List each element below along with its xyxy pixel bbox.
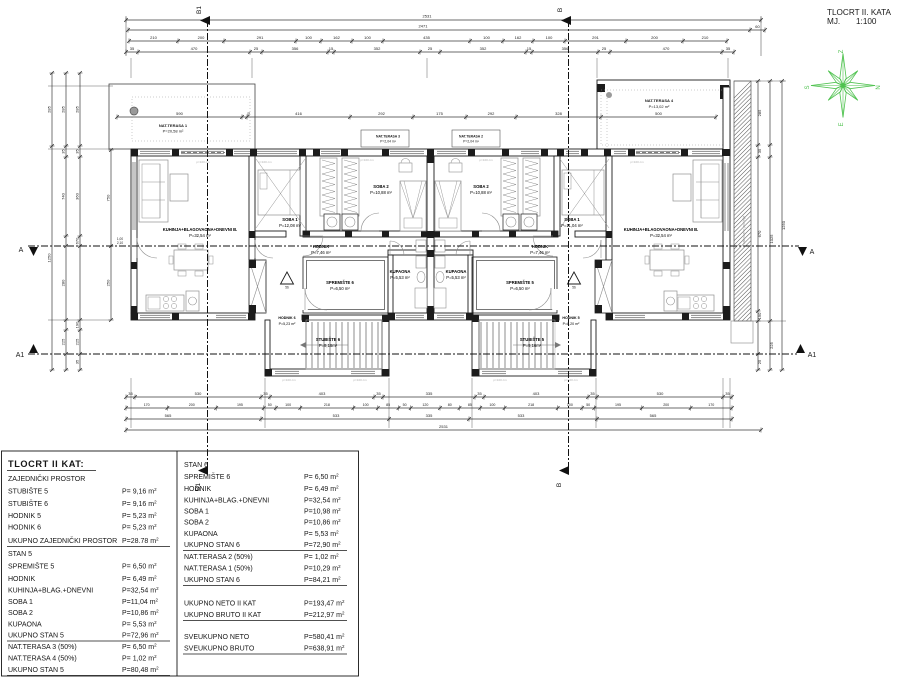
- svg-text:100: 100: [363, 403, 369, 407]
- svg-text:170: 170: [144, 403, 150, 407]
- svg-text:60: 60: [755, 24, 760, 29]
- svg-text:190: 190: [74, 321, 79, 328]
- svg-text:P=580,41 m2: P=580,41 m2: [304, 633, 345, 642]
- svg-text:p=100 cm: p=100 cm: [564, 378, 578, 382]
- svg-text:15: 15: [329, 46, 334, 51]
- svg-text:SVEUKUPNO NETO: SVEUKUPNO NETO: [184, 634, 250, 641]
- svg-text:NAT.TERASA 4 (50%): NAT.TERASA 4 (50%): [8, 656, 77, 663]
- svg-text:P=10,86 m2: P=10,86 m2: [122, 609, 159, 618]
- svg-text:P=193,47 m2: P=193,47 m2: [304, 599, 345, 608]
- svg-text:218: 218: [528, 403, 534, 407]
- svg-text:P=32,54 m2: P=32,54 m2: [122, 586, 159, 595]
- svg-text:ZAJEDNIČKI PROSTOR: ZAJEDNIČKI PROSTOR: [8, 474, 85, 483]
- svg-text:STAN 5: STAN 5: [8, 551, 32, 558]
- svg-text:P= 6,49 m2: P= 6,49 m2: [122, 575, 157, 584]
- svg-text:195: 195: [615, 403, 621, 407]
- svg-text:UKUPNO NETO II KAT: UKUPNO NETO II KAT: [184, 601, 257, 608]
- svg-text:UKUPNO ZAJEDNIČKI PROSTOR: UKUPNO ZAJEDNIČKI PROSTOR: [8, 536, 117, 545]
- svg-text:p=100 cm: p=100 cm: [353, 378, 367, 382]
- svg-text:35: 35: [757, 148, 762, 153]
- svg-text:740: 740: [60, 192, 65, 199]
- svg-text:P=13,02 m²: P=13,02 m²: [649, 104, 670, 109]
- svg-text:P=9,16m²: P=9,16m²: [319, 343, 338, 348]
- svg-text:TLOCRT II. KATA: TLOCRT II. KATA: [827, 8, 892, 17]
- svg-text:335: 335: [426, 413, 433, 418]
- svg-text:120: 120: [422, 403, 428, 407]
- svg-text:SOBA 2: SOBA 2: [184, 520, 209, 527]
- svg-text:56: 56: [285, 286, 289, 290]
- svg-text:SOBA 2: SOBA 2: [373, 184, 389, 189]
- svg-text:TLOCRT II KAT:: TLOCRT II KAT:: [8, 459, 84, 469]
- svg-text:200: 200: [189, 403, 195, 407]
- svg-text:50: 50: [268, 403, 272, 407]
- svg-text:25: 25: [757, 359, 762, 364]
- svg-text:P=10,98 m2: P=10,98 m2: [304, 507, 341, 516]
- svg-text:50: 50: [403, 403, 407, 407]
- svg-text:P=12,08 m²: P=12,08 m²: [279, 223, 301, 228]
- svg-text:100: 100: [364, 35, 371, 40]
- svg-text:P= 5,23 m2: P= 5,23 m2: [122, 523, 157, 532]
- svg-text:P= 6,49 m2: P= 6,49 m2: [304, 485, 339, 494]
- svg-text:15: 15: [527, 46, 532, 51]
- svg-text:162: 162: [333, 35, 340, 40]
- svg-text:A1: A1: [16, 352, 25, 359]
- svg-text:P=28.78 m2: P=28.78 m2: [122, 537, 159, 546]
- svg-text:P=6,50 m²: P=6,50 m²: [510, 286, 530, 291]
- svg-text:285: 285: [60, 105, 65, 112]
- svg-text:565: 565: [650, 413, 657, 418]
- svg-text:530: 530: [657, 391, 664, 396]
- svg-text:20: 20: [247, 112, 251, 116]
- svg-text:KUHINJA+BLAGOVAONA+DNEVNI B.: KUHINJA+BLAGOVAONA+DNEVNI B.: [163, 227, 238, 232]
- svg-text:S: S: [805, 85, 811, 89]
- svg-text:P= 1,02 m2: P= 1,02 m2: [122, 654, 157, 663]
- svg-text:UKUPNO STAN 6: UKUPNO STAN 6: [184, 577, 240, 584]
- svg-text:KUPAONA: KUPAONA: [8, 622, 42, 629]
- svg-text:P=11,04 m2: P=11,04 m2: [122, 598, 159, 607]
- svg-text:200: 200: [198, 35, 205, 40]
- svg-text:25: 25: [428, 46, 433, 51]
- svg-text:P=10,88 m²: P=10,88 m²: [470, 190, 492, 195]
- svg-text:SOBA 2: SOBA 2: [473, 184, 489, 189]
- svg-text:218: 218: [324, 403, 330, 407]
- svg-text:35: 35: [590, 391, 595, 396]
- svg-text:P=84,21 m2: P=84,21 m2: [304, 576, 341, 585]
- svg-text:100: 100: [567, 403, 573, 407]
- svg-text:p=100 cm: p=100 cm: [479, 158, 493, 162]
- svg-text:100: 100: [546, 35, 553, 40]
- svg-text:56: 56: [572, 286, 576, 290]
- svg-text:UKUPNO STAN 6: UKUPNO STAN 6: [184, 542, 240, 549]
- svg-text:328: 328: [555, 111, 562, 116]
- svg-text:NAT.TERASA 1 (50%): NAT.TERASA 1 (50%): [184, 566, 253, 573]
- svg-text:291: 291: [592, 35, 599, 40]
- svg-text:UKUPNO BRUTO II KAT: UKUPNO BRUTO II KAT: [184, 612, 262, 619]
- svg-text:225: 225: [769, 341, 774, 348]
- svg-text:35: 35: [725, 391, 730, 396]
- svg-text:UKUPNO STAN 5: UKUPNO STAN 5: [8, 633, 64, 640]
- svg-text:SPREMIŠTE 5: SPREMIŠTE 5: [8, 562, 54, 571]
- svg-text:KUHINJA+BLAGOVAONA+DNEVNI B.: KUHINJA+BLAGOVAONA+DNEVNI B.: [624, 227, 699, 232]
- svg-text:NAT.TERASA 2: NAT.TERASA 2: [459, 135, 483, 139]
- svg-text:416: 416: [295, 111, 302, 116]
- svg-text:35: 35: [60, 149, 65, 154]
- svg-text:P= 9,16 m2: P= 9,16 m2: [122, 500, 157, 509]
- svg-text:200: 200: [651, 35, 658, 40]
- svg-text:590: 590: [176, 111, 183, 116]
- svg-text:P=5,53 m²: P=5,53 m²: [390, 275, 410, 280]
- svg-text:35: 35: [477, 391, 482, 396]
- svg-text:P= 9,16 m2: P= 9,16 m2: [122, 487, 157, 496]
- svg-text:KUPAONA: KUPAONA: [184, 531, 218, 538]
- svg-text:670: 670: [74, 237, 79, 244]
- svg-text:210: 210: [150, 35, 157, 40]
- svg-text:P=32,54 m2: P=32,54 m2: [304, 496, 341, 505]
- svg-text:P=32,54 m²: P=32,54 m²: [189, 233, 211, 238]
- svg-text:P=5,23 m²: P=5,23 m²: [279, 322, 296, 326]
- svg-text:291: 291: [257, 35, 264, 40]
- svg-text:360: 360: [74, 192, 79, 199]
- svg-text:195: 195: [237, 403, 243, 407]
- svg-text:356: 356: [292, 46, 299, 51]
- svg-text:STUBIŠTE 6: STUBIŠTE 6: [8, 499, 48, 508]
- svg-text:750: 750: [105, 194, 110, 201]
- svg-text:162: 162: [515, 35, 522, 40]
- svg-text:2471: 2471: [419, 24, 429, 29]
- svg-text:356: 356: [562, 46, 569, 51]
- svg-text:HODNIK: HODNIK: [8, 576, 36, 583]
- svg-text:210: 210: [702, 35, 709, 40]
- svg-text:500: 500: [655, 111, 662, 116]
- svg-text:STUBIŠTE 5: STUBIŠTE 5: [520, 337, 545, 342]
- svg-text:292: 292: [378, 111, 385, 116]
- svg-text:35: 35: [74, 359, 79, 364]
- svg-text:35: 35: [726, 46, 731, 51]
- svg-text:A: A: [19, 247, 24, 254]
- svg-text:P=7,46 m²: P=7,46 m²: [311, 250, 331, 255]
- svg-text:250: 250: [105, 279, 110, 286]
- svg-text:P=8,20 m²: P=8,20 m²: [563, 322, 580, 326]
- svg-text:UKUPNO STAN 5: UKUPNO STAN 5: [8, 667, 64, 674]
- svg-text:A: A: [810, 249, 815, 256]
- svg-text:565: 565: [165, 413, 172, 418]
- svg-text:P= 5,53 m2: P= 5,53 m2: [122, 620, 157, 629]
- svg-text:MJ.: MJ.: [827, 17, 840, 26]
- svg-text:285: 285: [46, 105, 51, 112]
- svg-text:natkriveno pročelje: natkriveno pročelje: [742, 216, 746, 245]
- svg-text:KUPAONA: KUPAONA: [446, 269, 467, 274]
- svg-text:25: 25: [254, 46, 259, 51]
- svg-text:P=10,29 m2: P=10,29 m2: [304, 564, 341, 573]
- svg-text:NAT.TERASA 2 (50%): NAT.TERASA 2 (50%): [184, 554, 253, 561]
- svg-text:SPREMIŠTE 6: SPREMIŠTE 6: [184, 472, 230, 481]
- svg-text:P=80,48 m2: P=80,48 m2: [122, 666, 159, 675]
- svg-text:SVEUKUPNO BRUTO: SVEUKUPNO BRUTO: [184, 646, 255, 653]
- svg-text:Z: Z: [839, 49, 845, 53]
- svg-text:NAT.TERASA 4: NAT.TERASA 4: [645, 98, 674, 103]
- svg-text:p=100 cm: p=100 cm: [282, 378, 296, 382]
- svg-text:P=2,04 m²: P=2,04 m²: [463, 140, 480, 144]
- svg-text:352: 352: [374, 46, 381, 51]
- svg-text:P=6,50 m²: P=6,50 m²: [330, 286, 350, 291]
- svg-text:285: 285: [757, 109, 762, 116]
- svg-text:85: 85: [468, 403, 472, 407]
- svg-text:E: E: [839, 122, 845, 126]
- svg-text:P= 6,50 m2: P= 6,50 m2: [304, 473, 339, 482]
- svg-text:470: 470: [663, 46, 670, 51]
- svg-text:NAT.TERASA 1: NAT.TERASA 1: [159, 123, 188, 128]
- svg-text:SOBA 1: SOBA 1: [564, 217, 580, 222]
- svg-text:P=11,04 m²: P=11,04 m²: [561, 223, 583, 228]
- svg-text:1250: 1250: [781, 220, 786, 230]
- svg-text:670: 670: [757, 230, 762, 237]
- svg-text:SPREMIŠTE 6: SPREMIŠTE 6: [326, 280, 354, 285]
- svg-text:100: 100: [483, 35, 490, 40]
- svg-text:170: 170: [708, 403, 714, 407]
- svg-text:280: 280: [60, 279, 65, 286]
- svg-text:NAT.TERASA 3 (50%): NAT.TERASA 3 (50%): [8, 644, 77, 651]
- svg-text:P= 6,50 m2: P= 6,50 m2: [122, 562, 157, 571]
- svg-text:P= 6,50 m2: P= 6,50 m2: [122, 643, 157, 652]
- svg-text:HODNIK 6: HODNIK 6: [278, 316, 295, 320]
- svg-text:292: 292: [488, 111, 495, 116]
- svg-text:HODNIK 5: HODNIK 5: [562, 316, 579, 320]
- svg-text:p=100 cm: p=100 cm: [630, 160, 644, 164]
- svg-text:STAN 6: STAN 6: [184, 462, 208, 469]
- svg-text:P=5,53 m²: P=5,53 m²: [446, 275, 466, 280]
- svg-text:35: 35: [376, 391, 381, 396]
- svg-text:P=10,88 m²: P=10,88 m²: [370, 190, 392, 195]
- svg-text:190: 190: [757, 312, 762, 319]
- svg-text:B: B: [556, 483, 563, 487]
- svg-text:35: 35: [130, 46, 135, 51]
- svg-text:P=2,04 m²: P=2,04 m²: [380, 140, 397, 144]
- svg-text:SOBA 1: SOBA 1: [282, 217, 298, 222]
- svg-text:STUBIŠTE 6: STUBIŠTE 6: [316, 337, 341, 342]
- svg-text:p=100 cm: p=100 cm: [196, 160, 210, 164]
- svg-text:P= 5,53 m2: P= 5,53 m2: [304, 530, 339, 539]
- svg-text:p=100 cm: p=100 cm: [493, 378, 507, 382]
- svg-text:225: 225: [74, 338, 79, 345]
- svg-text:50: 50: [586, 403, 590, 407]
- svg-text:KUHINJA+BLAG.+DNEVNI: KUHINJA+BLAG.+DNEVNI: [184, 498, 269, 505]
- svg-text:KUPAONA: KUPAONA: [390, 269, 411, 274]
- svg-text:1:100: 1:100: [856, 17, 877, 26]
- svg-text:100: 100: [285, 403, 291, 407]
- svg-text:p=100 cm: p=100 cm: [258, 160, 272, 164]
- svg-text:85: 85: [386, 403, 390, 407]
- svg-text:P=32,54 m²: P=32,54 m²: [650, 233, 672, 238]
- svg-text:P=9,16m²: P=9,16m²: [523, 343, 542, 348]
- svg-text:P=10,86 m2: P=10,86 m2: [304, 518, 341, 527]
- svg-text:533: 533: [333, 413, 340, 418]
- svg-text:35: 35: [263, 391, 268, 396]
- svg-text:B: B: [557, 8, 564, 12]
- svg-text:1025: 1025: [769, 234, 774, 244]
- svg-text:SPREMIŠTE 5: SPREMIŠTE 5: [506, 280, 534, 285]
- svg-text:SOBA 2: SOBA 2: [8, 610, 33, 617]
- svg-text:SOBA 1: SOBA 1: [184, 509, 209, 516]
- svg-text:435: 435: [423, 35, 430, 40]
- svg-text:KUHINJA+BLAG.+DNEVNI: KUHINJA+BLAG.+DNEVNI: [8, 588, 93, 595]
- svg-text:P= 1,02 m2: P= 1,02 m2: [304, 553, 339, 562]
- svg-text:NAT.TERASA 3: NAT.TERASA 3: [376, 135, 400, 139]
- svg-text:P=7,46 m²: P=7,46 m²: [530, 250, 550, 255]
- svg-text:A1: A1: [808, 352, 817, 359]
- svg-text:P=212,97 m2: P=212,97 m2: [304, 611, 345, 620]
- svg-text:STUBIŠTE 5: STUBIŠTE 5: [8, 487, 48, 496]
- svg-text:225: 225: [60, 338, 65, 345]
- svg-text:P=72,96 m2: P=72,96 m2: [122, 631, 159, 640]
- svg-text:100: 100: [305, 35, 312, 40]
- svg-text:P=20,58 m²: P=20,58 m²: [163, 129, 184, 134]
- svg-text:80: 80: [448, 403, 452, 407]
- svg-text:100: 100: [489, 403, 495, 407]
- svg-text:p=100 cm: p=100 cm: [360, 158, 374, 162]
- svg-text:530: 530: [195, 391, 202, 396]
- svg-text:335: 335: [426, 391, 433, 396]
- svg-text:2531: 2531: [423, 14, 433, 19]
- svg-text:1250: 1250: [46, 253, 51, 263]
- svg-text:N: N: [876, 85, 882, 89]
- svg-text:200: 200: [663, 403, 669, 407]
- svg-text:HODNIK 5: HODNIK 5: [8, 513, 41, 520]
- svg-text:SOBA 1: SOBA 1: [8, 599, 33, 606]
- svg-text:403: 403: [533, 391, 540, 396]
- svg-text:352: 352: [480, 46, 487, 51]
- svg-text:HODNIK 6: HODNIK 6: [8, 525, 41, 532]
- svg-text:2,10: 2,10: [117, 241, 123, 245]
- svg-text:P=72,90 m2: P=72,90 m2: [304, 541, 341, 550]
- svg-text:403: 403: [319, 391, 326, 396]
- svg-text:B1: B1: [196, 6, 203, 14]
- svg-text:2531: 2531: [439, 424, 449, 429]
- svg-text:HODNIK: HODNIK: [184, 486, 212, 493]
- svg-text:P= 5,23 m2: P= 5,23 m2: [122, 512, 157, 521]
- svg-text:533: 533: [518, 413, 525, 418]
- svg-text:P=638,91 m2: P=638,91 m2: [304, 644, 345, 653]
- svg-text:470: 470: [191, 46, 198, 51]
- svg-text:35: 35: [74, 149, 79, 154]
- svg-text:175: 175: [436, 111, 443, 116]
- svg-text:285: 285: [74, 105, 79, 112]
- svg-text:25: 25: [602, 46, 607, 51]
